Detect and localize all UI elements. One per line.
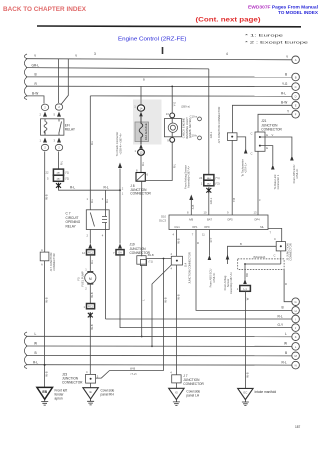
- W-B link to J23: [96, 371, 164, 379]
- SIL wire to J5: [268, 228, 282, 241]
- svg-text:GR-L: GR-L: [209, 197, 213, 204]
- wire riser C/OPN relay pin 3: [105, 190, 107, 210]
- svg-text:(*1): (*1): [215, 176, 219, 180]
- wire J14 left to J19: [146, 258, 171, 260]
- svg-text:D10: D10: [161, 215, 166, 219]
- svg-text:W-B: W-B: [176, 238, 180, 243]
- svg-text:FUEL PUMP: FUEL PUMP: [81, 271, 85, 286]
- junction dot on Y-G bus: [171, 86, 173, 88]
- header rule: [37, 25, 301, 28]
- svg-text:E: E: [295, 104, 297, 108]
- svg-text:B-W: B-W: [32, 92, 38, 96]
- terminal circle A: [292, 56, 300, 64]
- ground symbol: [87, 399, 94, 405]
- grid column tick: [162, 47, 164, 54]
- svg-text:C10-a: C10-a: [190, 115, 198, 119]
- C7 circuit opening relay box: [86, 210, 109, 230]
- C7 relay coil: [102, 210, 107, 230]
- ECU / DLC box: [169, 215, 268, 230]
- svg-text:Assembly<387-A>: Assembly<387-A>: [229, 272, 233, 294]
- light top pin circle: [170, 113, 175, 118]
- svg-text:TO MODEL INDEX: TO MODEL INDEX: [278, 10, 319, 15]
- junction dot: [163, 258, 165, 260]
- svg-text:R-L: R-L: [90, 140, 94, 145]
- svg-text:W-B: W-B: [130, 366, 135, 370]
- ground triangle cowl side LH: [169, 388, 184, 399]
- shield internal wires: [245, 264, 281, 270]
- svg-text:SIL: SIL: [260, 225, 265, 229]
- wire bus B: [26, 76, 296, 78]
- svg-text:Y-G: Y-G: [173, 102, 177, 107]
- svg-text:R-L: R-L: [104, 186, 109, 190]
- svg-text:R-L: R-L: [60, 160, 64, 165]
- svg-text:W-B: W-B: [149, 253, 154, 257]
- svg-text:C: C: [274, 237, 276, 241]
- svg-text:<2S8-3>: <2S8-3>: [295, 168, 299, 179]
- terminal circle M: [292, 352, 300, 360]
- bus continuation squiggle top-left: [24, 54, 27, 100]
- svg-text:RELAY: RELAY: [66, 224, 77, 228]
- svg-text:R-L: R-L: [281, 92, 286, 96]
- svg-text:R-L: R-L: [33, 360, 38, 364]
- pin arrow below relay right: [57, 138, 61, 143]
- svg-text:CONNECTOR: CONNECTOR: [130, 191, 151, 195]
- shielded dashed box: [238, 259, 284, 270]
- shield right branch to terminal G: [284, 270, 296, 302]
- svg-text:CONNECTOR: CONNECTOR: [183, 382, 204, 386]
- J21 junction connector box: [255, 132, 265, 151]
- svg-text:M: M: [89, 277, 92, 281]
- ground symbol: [173, 400, 180, 406]
- svg-text:B: B: [285, 72, 287, 76]
- svg-text:(*1): (*1): [65, 171, 69, 175]
- wire J14 bottom to J7: [175, 265, 177, 375]
- svg-text:B-W: B-W: [281, 101, 287, 105]
- svg-text:C: C: [251, 132, 253, 136]
- wire CG1 to J14: [175, 230, 177, 257]
- J7 junction connector box: [172, 375, 181, 383]
- J27 junction connector box: [227, 133, 237, 141]
- fuse element: [139, 116, 143, 144]
- splice X below variant boxes: [56, 183, 61, 189]
- svg-text:(2B9-a): (2B9-a): [181, 105, 190, 109]
- svg-text:E: E: [266, 146, 268, 150]
- variant connector box 4A-1: [53, 169, 63, 175]
- svg-text:W-B: W-B: [45, 194, 49, 199]
- svg-text:13: 13: [166, 112, 169, 116]
- svg-text:(*1): (*1): [149, 260, 153, 264]
- fusebox shading: [133, 100, 162, 145]
- svg-text:R-L: R-L: [90, 198, 94, 203]
- svg-text:187: 187: [295, 425, 301, 429]
- W-B drop wire from J19-J14 link: [163, 259, 165, 371]
- wire J17 down to R-L bus and EB ground: [44, 261, 46, 388]
- EFI relay coil: [44, 122, 47, 134]
- svg-text:22: 22: [46, 171, 49, 175]
- svg-text:BR: BR: [245, 273, 249, 277]
- svg-text:CONNECTOR: CONNECTOR: [289, 243, 293, 260]
- svg-text:A-B: A-B: [191, 205, 195, 210]
- J17 junction connector box on relay ground wire: [40, 252, 49, 261]
- wire J5 bottom into shield: [280, 251, 282, 264]
- wire J5 feed horizontal: [240, 245, 276, 247]
- svg-text:R-L: R-L: [90, 259, 94, 264]
- svg-text:R-L: R-L: [278, 314, 283, 318]
- svg-text:EC: EC: [244, 391, 248, 395]
- pin arrow into relay left: [43, 112, 47, 117]
- fuel pump R-L branch line to terminal D: [89, 96, 91, 190]
- ground symbol: [242, 400, 249, 406]
- inline connector bubble C10-a: [198, 117, 202, 121]
- svg-text:W: W: [34, 342, 37, 346]
- svg-text:G-Y: G-Y: [278, 323, 285, 327]
- svg-text:RC1: RC1: [88, 252, 93, 255]
- svg-text:3: 3: [94, 52, 96, 56]
- svg-text:W-B: W-B: [90, 324, 94, 329]
- svg-text:V: V: [272, 133, 274, 137]
- diagonal branch from J14: [152, 265, 171, 346]
- fuse top pin circle 14: [137, 105, 144, 111]
- variant connector box 14-1: [204, 175, 214, 181]
- arrow into L1: [243, 279, 247, 284]
- svg-text:<2S8-4>: <2S8-4>: [212, 272, 216, 283]
- wire J8 to warning light leg: [145, 142, 172, 180]
- svg-text:RELAY: RELAY: [65, 128, 76, 132]
- svg-text:B: B: [282, 306, 284, 310]
- terminal circle H: [292, 307, 300, 315]
- wire J23 to ground triangle: [90, 383, 92, 388]
- ground triangle intake manifold: [238, 388, 253, 399]
- svg-text:BAT: BAT: [207, 218, 212, 222]
- ground symbol under EB: [41, 399, 48, 405]
- svg-text:A: A: [295, 58, 297, 62]
- svg-text:apron: apron: [55, 397, 63, 401]
- To Check Connector arrow: [118, 163, 122, 169]
- tachometer arrow: [244, 149, 248, 154]
- terminal circle J: [292, 324, 300, 332]
- wire bus GR-L: [26, 68, 209, 69]
- svg-text:A: A: [41, 248, 43, 252]
- svg-text:K: K: [295, 335, 297, 339]
- junction dot on L bus: [141, 336, 143, 338]
- svg-text:RC1: RC1: [88, 306, 93, 309]
- svg-text:R-L: R-L: [141, 161, 145, 166]
- svg-text:CONNECTOR: CONNECTOR: [52, 253, 56, 270]
- light bottom pin circle: [170, 138, 175, 143]
- svg-text:J19: J19: [130, 242, 135, 246]
- svg-text:IE: IE: [89, 390, 92, 394]
- svg-text:B: B: [196, 242, 200, 244]
- wire C/OPN output to fuel pump: [89, 230, 91, 244]
- svg-text:Intake manifold: Intake manifold: [255, 390, 277, 394]
- junction dot on W bus: [151, 345, 153, 347]
- svg-text:W-B: W-B: [176, 294, 180, 299]
- wire pump ground down to J23: [89, 318, 91, 374]
- ground triangle cowl side RH: [83, 388, 98, 399]
- svg-text:GA: GA: [118, 252, 122, 255]
- bottom bus W: [26, 345, 296, 347]
- svg-text:EWD307F Pages From Manual: EWD307F Pages From Manual: [248, 5, 318, 10]
- terminal circle L: [292, 343, 300, 351]
- svg-text:B: B: [285, 351, 287, 355]
- svg-text:B: B: [35, 351, 37, 355]
- terminal circle D: [292, 92, 300, 100]
- wire J21 upper branch to ABS arrow: [261, 137, 292, 156]
- svg-text:GR-L: GR-L: [32, 63, 40, 67]
- EFI relay switch: [59, 122, 62, 134]
- svg-text:4: 4: [226, 52, 228, 56]
- fuse feed drop from Y-G bus: [140, 86, 142, 104]
- svg-text:Y: Y: [258, 199, 262, 201]
- svg-text:OP5: OP5: [227, 218, 233, 222]
- wire bus B-W: [26, 96, 44, 104]
- wire bus Y-G: [26, 85, 296, 87]
- EFI relay bottom pin circle left: [41, 144, 48, 150]
- wire Y drop to EFI relay pin1: [57, 59, 59, 103]
- EFI relay pin circle 2 (top left): [41, 104, 48, 110]
- wire to ECU BAT: [208, 193, 210, 215]
- svg-text:J14: J14: [183, 262, 187, 267]
- terminal circle I: [292, 315, 300, 323]
- svg-text:R-L: R-L: [105, 198, 109, 203]
- svg-text:BACK TO CHAPTER INDEX: BACK TO CHAPTER INDEX: [3, 7, 86, 13]
- bottom bus B: [26, 354, 296, 356]
- terminal circle N: [292, 361, 300, 369]
- svg-text:W-B: W-B: [163, 297, 167, 302]
- svg-text:C10-b: C10-b: [190, 134, 198, 138]
- Airbag branch feed to J5 line: [228, 246, 241, 264]
- inline connector on check wire: [116, 250, 124, 255]
- EFI relay wire stubs inside: [44, 119, 46, 122]
- svg-text:A: A: [41, 263, 43, 267]
- wire into pump: [89, 255, 91, 273]
- E line wire to terminal E: [232, 105, 295, 133]
- arrow into inline connector: [118, 244, 122, 249]
- svg-text:J27 JUNCTION CONNECTOR: J27 JUNCTION CONNECTOR: [217, 107, 221, 144]
- svg-text:panel RH: panel RH: [101, 393, 115, 397]
- terminal circle B: [292, 73, 300, 81]
- svg-text:IG: IG: [175, 390, 178, 394]
- svg-text:C: C: [295, 85, 297, 89]
- svg-text:B: B: [143, 78, 145, 82]
- wire D line: [90, 95, 295, 97]
- svg-text:R-L: R-L: [70, 186, 75, 190]
- ground triangle EB: [37, 387, 53, 399]
- svg-text:W-B: W-B: [245, 372, 249, 377]
- bulb outer: [168, 123, 177, 132]
- svg-text:Engine Control (2RZ-FE): Engine Control (2RZ-FE): [118, 37, 187, 43]
- svg-text:<7-2>: <7-2>: [130, 372, 137, 376]
- svg-text:E: E: [266, 133, 268, 137]
- EFI relay box: [41, 119, 64, 135]
- wire bus Y (top): [26, 59, 296, 60]
- svg-text:(*2): (*2): [65, 177, 69, 181]
- svg-text:B: B: [240, 242, 242, 246]
- J14 junction connector box: [171, 256, 182, 265]
- svg-text:A/B: A/B: [189, 218, 194, 222]
- wire J21 lower branch: [261, 146, 273, 165]
- svg-text:(Cont. next page): (Cont. next page): [196, 17, 261, 24]
- svg-text:CONNECTOR: CONNECTOR: [62, 381, 83, 385]
- svg-text:13: 13: [254, 211, 257, 215]
- terminal circle G: [292, 298, 300, 306]
- bulb inner: [170, 125, 175, 130]
- warning light riser from Y-G bus: [171, 86, 173, 113]
- check engine warning light box: [164, 119, 181, 137]
- wire J7 to ground triangle: [175, 383, 177, 388]
- svg-text:DLC3: DLC3: [159, 219, 166, 223]
- svg-text:R-L: R-L: [173, 163, 177, 168]
- C7 relay switch: [90, 213, 94, 227]
- wire J27 to tachometer branch: [237, 137, 246, 150]
- wire J21 to ECU pin 13: [257, 151, 259, 215]
- svg-text:CG1: CG1: [174, 225, 180, 229]
- svg-text:24: 24: [199, 176, 202, 180]
- svg-text:C: C: [274, 254, 276, 258]
- wire EFI relay right output down to variant boxes: [58, 152, 60, 170]
- svg-text:panel LH: panel LH: [186, 394, 199, 398]
- variant connector box 14-2: [204, 180, 214, 186]
- wire shield to L1 sensor: [244, 270, 246, 280]
- svg-text:Connector 1: Connector 1: [276, 174, 280, 189]
- wire J27 to ECU OP5: [231, 140, 233, 215]
- wire Y drop 2 with bend: [61, 59, 68, 105]
- svg-text:10: 10: [204, 211, 207, 215]
- F line from terminal F through J21: [258, 114, 296, 132]
- J23 junction connector box: [86, 374, 96, 383]
- svg-text:W-B: W-B: [90, 292, 94, 297]
- svg-text:B: B: [284, 283, 288, 285]
- svg-text:EB: EB: [42, 390, 47, 394]
- fuel pump feed arrow: [88, 244, 92, 249]
- svg-text:F5: F5: [77, 277, 81, 281]
- J5 junction connector box: [276, 242, 285, 251]
- svg-text:B: B: [295, 75, 297, 79]
- pin arrow below relay left: [43, 138, 47, 143]
- svg-text:W: W: [245, 297, 249, 300]
- junction dot R-L: [119, 189, 121, 191]
- bottom bus L: [26, 335, 296, 337]
- wire pump to inline connector: [89, 283, 91, 303]
- junction dot on R-L bus: [44, 364, 46, 366]
- svg-text:L: L: [285, 332, 287, 336]
- fuse bottom pin circle 13: [138, 149, 145, 155]
- L1 box: [240, 286, 251, 292]
- svg-text:G: G: [295, 300, 297, 304]
- arrow below 14: [139, 112, 143, 117]
- svg-text:* 1: Europe: * 1: Europe: [245, 34, 284, 38]
- svg-text:JUNCTION: JUNCTION: [130, 247, 147, 251]
- ECU OP1 wire to terminal H: [196, 230, 296, 311]
- splice X on pump ground: [88, 312, 93, 318]
- variant connector box 4A-2: [53, 175, 63, 181]
- ABS ECU feed to OP9: [208, 230, 210, 256]
- svg-text:R-Y: R-Y: [209, 237, 213, 242]
- bus continuation squiggle bottom-left: [24, 332, 27, 369]
- svg-text:Y-B: Y-B: [232, 198, 236, 202]
- wire down to terminal J: [120, 255, 296, 328]
- pin arrow into relay right: [57, 112, 61, 117]
- svg-text:<27A-1>: <27A-1>: [244, 162, 248, 173]
- fuse body: [135, 122, 149, 142]
- svg-text:10A GAUGE: 10A GAUGE: [144, 123, 148, 140]
- inline connector on pump ground wire: [87, 304, 95, 309]
- bottom bus R-L: [26, 364, 296, 366]
- svg-text:* 2 : Except Europe: * 2 : Except Europe: [245, 41, 309, 45]
- wire C/OPN output right pin down: [105, 230, 107, 320]
- wire L1 to intake manifold ground: [244, 291, 246, 388]
- terminal circle C: [292, 83, 300, 91]
- svg-text:L: L: [35, 332, 37, 336]
- wire J19 bottom to L bus: [141, 265, 143, 337]
- J8 junction connector box: [136, 173, 145, 182]
- svg-text:W-B: W-B: [45, 371, 49, 376]
- wire J19 top from J8: [141, 181, 143, 256]
- inline connector bubble C10-b: [198, 136, 202, 140]
- svg-text:D: D: [295, 95, 297, 99]
- inline connector on pump wire: [87, 250, 95, 255]
- arrow below fuse: [139, 144, 143, 149]
- svg-text:H: H: [295, 309, 297, 313]
- svg-text:OP1: OP1: [192, 225, 198, 229]
- GR-L drop wire: [208, 69, 210, 175]
- svg-text:N: N: [295, 364, 297, 368]
- svg-text:CONNECTOR: CONNECTOR: [261, 128, 282, 132]
- svg-text:12: 12: [82, 251, 85, 255]
- svg-text:To Check Connector: To Check Connector: [115, 132, 119, 156]
- svg-text:Assembly<387-A>: Assembly<387-A>: [187, 166, 191, 188]
- EFI relay pin circle 1 (top right): [55, 104, 62, 110]
- svg-text:B: B: [35, 73, 37, 77]
- wire R-L from splice to check connector riser: [59, 188, 121, 190]
- J19 junction connector box: [137, 256, 146, 265]
- svg-text:W-B: W-B: [45, 297, 49, 302]
- splice X below variant boxes: [206, 187, 211, 193]
- wire fuse to J8: [140, 155, 142, 172]
- check connector riser: [119, 169, 121, 244]
- svg-text:OP4: OP4: [254, 218, 260, 222]
- svg-text:(*2): (*2): [215, 182, 219, 186]
- fuel pump motor M: [85, 272, 96, 283]
- wire riser C/OPN relay pin 1: [89, 190, 91, 210]
- EFI relay bottom pin circle right: [55, 144, 62, 150]
- svg-text:W: W: [284, 342, 287, 346]
- svg-text:C: C: [251, 152, 253, 156]
- wire EFI relay left output down to J17: [44, 152, 46, 253]
- terminal circle E: [292, 102, 300, 110]
- svg-text:R-L: R-L: [282, 360, 287, 364]
- terminal circle K: [292, 333, 300, 341]
- svg-text:(Shielded): (Shielded): [253, 255, 265, 259]
- svg-text:GR-L: GR-L: [209, 131, 213, 138]
- svg-text:JUNCTION CONNECTOR: JUNCTION CONNECTOR: [187, 252, 191, 284]
- svg-text:OP9: OP9: [204, 225, 210, 229]
- svg-text:Y-G: Y-G: [282, 82, 288, 86]
- wire to terminal I: [106, 318, 296, 320]
- terminal circle F: [292, 111, 300, 119]
- svg-text:<2S8-4> <387-4>: <2S8-4> <387-4>: [119, 133, 123, 155]
